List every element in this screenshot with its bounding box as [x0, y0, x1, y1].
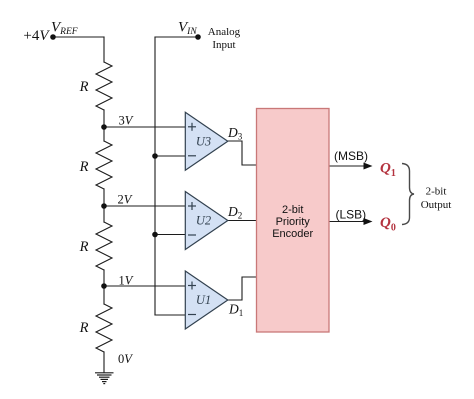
wire D3 output elbow: [228, 141, 257, 165]
node VREF junction dot: [50, 34, 56, 40]
wire R3 to 1V node: [103, 270, 105, 286]
op-amp U2: [185, 192, 228, 250]
resistor R4: [96, 304, 112, 352]
svg-text:0V: 0V: [118, 352, 133, 366]
node 1V junction dot: [101, 283, 107, 289]
svg-text:Encoder: Encoder: [272, 228, 313, 240]
junction U3 inverting on VIN: [152, 153, 158, 159]
op-amp U3: [185, 112, 228, 170]
wire MSB output arrow shaft: [329, 165, 365, 167]
svg-text:Output: Output: [421, 199, 452, 211]
label 2-bit Output: [421, 186, 452, 212]
wire R1 to 3V node: [103, 110, 105, 127]
wire V_IN vertical: [154, 37, 156, 315]
wire 1V node to R4: [103, 286, 105, 304]
op-amp U1: [185, 271, 228, 329]
resistor R2: [96, 141, 112, 189]
wire V_IN node to U2 inverting input: [155, 234, 185, 236]
svg-text:3V: 3V: [119, 114, 134, 128]
junction U2 inverting on VIN: [152, 232, 158, 238]
wire R2 to 2V node: [103, 189, 105, 206]
wire node 3V to U3 noninverting input: [104, 126, 185, 128]
wire D2 output: [228, 220, 257, 222]
svg-text:(LSB): (LSB): [336, 208, 367, 222]
svg-text:2-bit: 2-bit: [426, 186, 447, 198]
resistor R3: [96, 222, 112, 270]
svg-text:1V: 1V: [119, 274, 134, 288]
svg-text:Input: Input: [212, 39, 235, 51]
svg-text:+4V: +4V: [23, 28, 50, 44]
brace 2-bit output: [402, 164, 414, 225]
svg-text:2-bit: 2-bit: [282, 204, 303, 216]
svg-text:U1: U1: [196, 293, 211, 307]
wire V_IN horizontal: [155, 36, 198, 38]
node 2V junction dot: [101, 203, 107, 209]
wire V_IN to U1 inverting input: [155, 314, 185, 316]
node 3V junction dot: [101, 124, 107, 130]
node VIN junction dot: [195, 34, 201, 40]
wire V_REF horizontal: [53, 36, 104, 38]
wire R4 to ground: [103, 352, 105, 372]
label Analog Input: [208, 26, 241, 51]
wire 3V node to R2: [103, 127, 105, 141]
svg-text:Priority: Priority: [276, 216, 311, 228]
svg-text:2V: 2V: [118, 193, 133, 207]
svg-text:(MSB): (MSB): [334, 149, 368, 163]
wire LSB output arrow shaft: [329, 221, 365, 223]
svg-text:R: R: [79, 159, 89, 175]
svg-text:R: R: [79, 320, 89, 336]
svg-text:U3: U3: [196, 135, 211, 149]
2-bit priority encoder block: [257, 109, 330, 333]
ground: [95, 373, 114, 384]
arrowhead LSB: [364, 218, 373, 225]
svg-text:Analog: Analog: [208, 26, 241, 38]
wire node 2V to U2 noninverting input: [104, 205, 185, 207]
wire ladder top segment: [103, 37, 105, 62]
svg-text:R: R: [79, 79, 89, 95]
wire V_IN node to U3 inverting input: [155, 155, 185, 157]
arrowhead MSB: [364, 163, 373, 170]
resistor R1: [96, 62, 112, 110]
svg-text:R: R: [79, 239, 89, 255]
wire node 1V to U1 noninverting input: [104, 285, 185, 287]
wire 2V node to R3: [103, 206, 105, 222]
wire D1 output elbow: [228, 277, 257, 300]
svg-text:U2: U2: [196, 214, 211, 228]
